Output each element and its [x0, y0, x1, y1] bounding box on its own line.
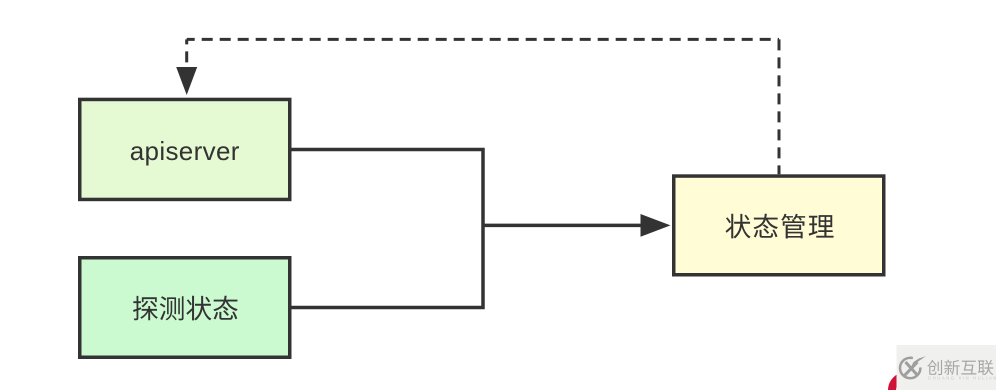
svg-text:CHUANG XIN HULIAN: CHUANG XIN HULIAN [928, 376, 996, 381]
svg-text:apiserver: apiserver [130, 136, 240, 166]
